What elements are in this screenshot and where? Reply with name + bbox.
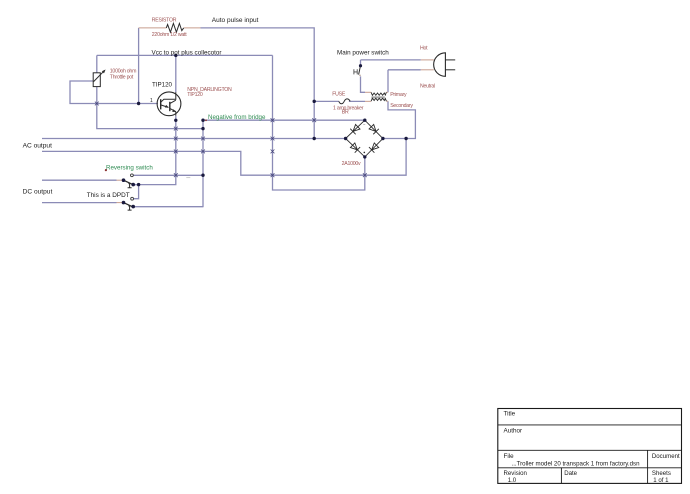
crossing Vcc drop over AC upper [271, 137, 275, 141]
transistor Q1 emitter diagonal with arrow [170, 108, 176, 111]
svg-text:Hot: Hot [420, 46, 428, 52]
svg-text:Auto pulse input: Auto pulse input [212, 17, 259, 24]
wire hot from main switch to plug [361, 59, 421, 61]
svg-text:Vcc to pot plus collecotor: Vcc to pot plus collecotor [152, 50, 222, 57]
diode D1 top-left [350, 124, 360, 134]
transistor Q1 base bar [160, 99, 162, 109]
svg-text:File: File [504, 453, 515, 460]
wire primary right pin stub [386, 91, 388, 93]
crossing negative vertical over AC lower [201, 150, 205, 154]
wire switch top throw to negative vertical [133, 174, 203, 176]
wire neutral from primary vertical to plug [388, 69, 421, 71]
main power switch S1 lever [359, 66, 361, 75]
bridge minus mark [363, 123, 365, 125]
svg-text:1 of 1: 1 of 1 [653, 477, 669, 484]
junction upper lever end [131, 183, 135, 187]
junction main switch pivot [359, 64, 362, 67]
crossing wiper over pot vertical [95, 102, 99, 106]
faint gray dash artifact [186, 177, 190, 179]
wire fuse to secondary left [349, 100, 365, 102]
junction collector Vcc [174, 54, 177, 57]
crossing emitter over wire A [174, 127, 178, 131]
wire upper pole pin stub [117, 179, 123, 181]
svg-text:Throttle pot: Throttle pot [110, 74, 134, 80]
transistor Q1 second base bar [169, 102, 171, 111]
title block row lines [498, 425, 682, 468]
svg-text:Secondary: Secondary [390, 103, 413, 109]
wire lower pole pin stub [117, 202, 123, 204]
svg-text:This is a DPDT: This is a DPDT [87, 192, 130, 199]
transformer T1 core lines [371, 97, 384, 98]
wire upper lever to junction [133, 184, 138, 186]
svg-text:FUSE: FUSE [332, 92, 346, 98]
junction negative start [201, 119, 204, 122]
svg-text:Reversing switch: Reversing switch [106, 164, 153, 171]
svg-text:BR: BR [342, 109, 349, 115]
wire bridge right node to secondary junction [383, 101, 416, 138]
crossing emitter over throw wire [174, 173, 178, 177]
wire resistor right pin stub [184, 27, 201, 29]
wire pot bottom vertical and wire A to negative net [97, 87, 203, 129]
transistor Q1 TIP120 circle [157, 92, 181, 116]
diode D3 bottom-left [350, 142, 360, 152]
junction emitter dot [174, 119, 177, 122]
junction upper throw junction [137, 183, 140, 186]
transistor Q1 collector bar and diagonal [161, 99, 176, 102]
wire main switch bottom to primary left [361, 76, 366, 92]
junction lower lever end [131, 205, 135, 209]
crossing Vcc drop over AC lower [271, 150, 275, 154]
wire fuse net from AC vertical [314, 100, 339, 102]
bridge plus mark [364, 152, 366, 154]
junction fuse tap [313, 100, 316, 103]
reversing switch upper actuator I mark [128, 184, 132, 188]
wire DC output upper pole [42, 179, 117, 181]
svg-text:Document: Document [652, 453, 680, 460]
wire negative vertical down to lower switch throw [133, 120, 203, 206]
svg-text:TIP120: TIP120 [187, 92, 203, 98]
plug P1 hot prong [445, 59, 455, 61]
reversing switch lower actuator I mark [128, 206, 132, 210]
wire pot wiper to transistor base [70, 81, 158, 104]
wire auto-pulse vertical from resistor corner down to base junction [138, 28, 140, 104]
svg-text:Date: Date [564, 470, 577, 477]
svg-text:DC output: DC output [23, 188, 53, 195]
svg-text:1.0: 1.0 [508, 477, 517, 484]
transistor Q1 collector inner vertical [175, 92, 177, 100]
svg-text:AC output: AC output [23, 142, 52, 149]
junction AC tap [313, 137, 316, 140]
main power switch S1 actuator H mark [354, 69, 357, 74]
node bridge left [344, 137, 347, 140]
crossing Vcc drop over jog wire [271, 173, 275, 177]
svg-text:1: 1 [150, 98, 153, 104]
label origin red dot reversing switch [105, 169, 107, 171]
node bridge bottom [363, 155, 366, 158]
potentiometer R2 wiper arrow [94, 71, 105, 82]
wire collector from Vcc [175, 55, 177, 92]
label origin red dot negative from bridge [205, 119, 207, 121]
bridge rectifier B1 diamond edges [346, 120, 383, 157]
reversing switch upper throw contact circle [131, 174, 134, 177]
wire primary left pin stub [365, 91, 371, 93]
svg-text:Negative from bridge: Negative from bridge [208, 114, 266, 121]
main power switch S1 contact mark [359, 75, 361, 77]
crossing emitter over AC lower [174, 150, 178, 154]
transistor Q1 inner emitter diagonal with arrow [161, 105, 169, 108]
transformer T1 secondary winding [371, 98, 386, 101]
wire pot top vertical [96, 55, 98, 72]
node bridge top [363, 119, 366, 122]
fuse F1 1 amp breaker [339, 99, 350, 104]
crossing Vcc drop over negative wire [271, 118, 275, 122]
transistor Q1 inner emitter vertical [175, 112, 177, 116]
junction base/wiper [137, 102, 140, 105]
wire AC output upper (to bridge left node) [42, 138, 346, 140]
plug P1 neutral prong [445, 69, 455, 71]
wire primary right vertical [387, 70, 389, 93]
wire Vcc horizontal [97, 54, 273, 56]
crossing bridge bottom vertical over jog wire [363, 173, 367, 177]
wire main switch top [360, 60, 362, 66]
title block column lines [561, 450, 647, 483]
junction secondary bridge [404, 137, 407, 140]
svg-text:Title: Title [504, 410, 516, 417]
reversing switch upper lever [124, 180, 133, 184]
junction lower pole [122, 201, 126, 205]
wire secondary right pin stub [386, 100, 388, 102]
junction dots [122, 54, 408, 209]
reversing switch lower lever [124, 203, 133, 207]
diode D4 bottom-right [369, 142, 379, 152]
wire DC output lower pole [42, 202, 117, 204]
crossing autopulse vertical over negative wire [312, 118, 316, 122]
svg-text:Revision: Revision [504, 470, 527, 477]
svg-text:Main power switch: Main power switch [337, 49, 389, 56]
plug P1 body half circle [434, 53, 446, 77]
svg-text:2A1000v: 2A1000v [342, 161, 361, 167]
wire AC output lower to bridge right via jog [42, 139, 406, 176]
junction upper pole [122, 178, 126, 182]
reversing switch lower throw contact circle [131, 197, 134, 200]
wire auto pulse input to right and down to AC net [201, 28, 315, 139]
transistor Q1 second collector diagonal [170, 100, 176, 103]
junction throw wire end [201, 174, 204, 177]
crossing emitter over AC upper [174, 137, 178, 141]
potentiometer R2 throttle pot body [93, 73, 100, 87]
wire hot plug pin stub [421, 59, 434, 61]
svg-text:Neutral: Neutral [420, 84, 435, 90]
svg-text:...Troller model 20 transpack: ...Troller model 20 transpack 1 from fac… [512, 460, 641, 467]
svg-text:TIP120: TIP120 [152, 81, 173, 88]
svg-text:RESISTOR: RESISTOR [152, 18, 177, 24]
wire neutral plug pin stub [421, 69, 434, 71]
wire secondary left pin stub [365, 100, 371, 102]
diode D2 top-right [369, 124, 379, 134]
wire emitter down and left to reversing switch [133, 116, 176, 185]
wire negative from bridge [203, 119, 365, 121]
transformer T1 primary winding [371, 92, 386, 95]
node bridge right [381, 137, 384, 140]
wire resistor left pin stub [139, 27, 167, 29]
junction wire A end [201, 127, 204, 130]
svg-text:220ohm 1/2 watt: 220ohm 1/2 watt [152, 32, 187, 38]
wire lower lever to negative vertical [133, 206, 203, 208]
crossing marks [95, 102, 367, 178]
wire lower throw circle up to junction [134, 185, 139, 199]
svg-text:Sheets: Sheets [652, 470, 671, 477]
svg-text:Primary: Primary [390, 92, 407, 98]
crossing negative vertical over AC upper [201, 137, 205, 141]
svg-text:Author: Author [504, 427, 523, 434]
title block outer frame [498, 409, 682, 484]
wire Vcc drop right and to bridge bottom [273, 55, 365, 190]
resistor R1 zigzag 220ohm [166, 23, 183, 32]
